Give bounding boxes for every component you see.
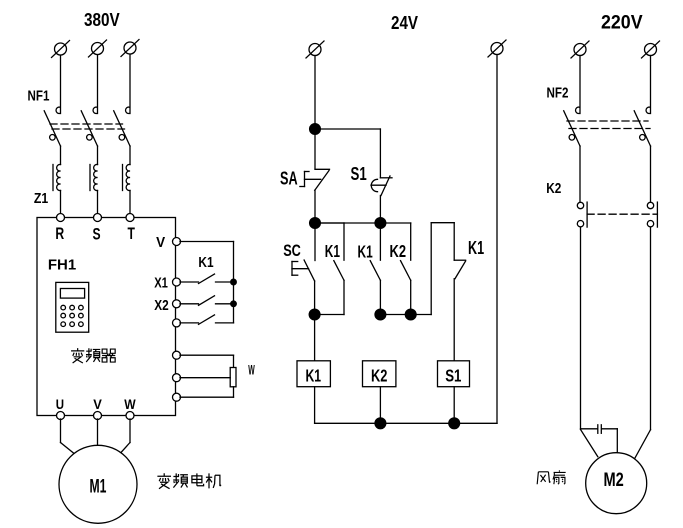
terminal P1 [173, 351, 181, 359]
keypad FH1 [56, 282, 89, 332]
wire P3 to resistor bottom [180, 387, 234, 397]
wire L1 drop [60, 56, 62, 114]
label 变频器 (inverter) [71, 348, 115, 363]
svg-text:K1: K1 [306, 366, 322, 386]
junction X1 bus [231, 279, 237, 285]
supply terminal 24V-L [306, 41, 324, 58]
svg-text:R: R [55, 224, 64, 243]
contact K1 NC [454, 260, 465, 279]
breaker NF2 pole 2 [634, 107, 650, 146]
terminal P2 [173, 374, 181, 382]
svg-text:380V: 380V [84, 10, 120, 30]
breaker NF1 pole 2 [81, 107, 97, 146]
terminal P3 [173, 393, 181, 401]
svg-text:K1: K1 [325, 241, 340, 261]
junction branch2 [375, 309, 386, 320]
contact K2 [380, 223, 410, 315]
wire fan left drop [580, 227, 582, 429]
svg-text:NF1: NF1 [28, 88, 50, 105]
svg-text:S1: S1 [445, 366, 461, 386]
wire pole1 to reactor [60, 146, 62, 165]
wire pole3 to reactor [129, 146, 131, 165]
breaker NF1 linkage [50, 124, 125, 129]
breaker NF2 linkage [567, 121, 650, 129]
button S1 (NC) [371, 176, 392, 196]
terminal V [173, 238, 181, 246]
terminal T [126, 214, 134, 222]
wire reactor3 to T [129, 191, 131, 215]
wire V to motor [97, 419, 99, 446]
label 变频电机 (inverter motor) [157, 473, 221, 488]
svg-text:U: U [56, 396, 64, 412]
wire SA down [314, 190, 316, 223]
supply terminal L2 [89, 40, 107, 57]
wire reactor2 to S [97, 191, 99, 215]
wire P1 to resistor top [180, 355, 234, 367]
terminal V out [94, 412, 102, 420]
svg-text:24V: 24V [391, 13, 418, 33]
button SA (NC) [300, 129, 330, 190]
wire S1 down [379, 196, 381, 224]
wire branch2 bottom [380, 314, 431, 316]
supply terminal 220V-R [642, 41, 660, 58]
svg-text:T: T [128, 224, 136, 243]
junction K1 coil top [309, 309, 320, 320]
wire L2 drop [97, 55, 99, 114]
wire right lead to motor [635, 430, 651, 459]
contact K2 pole 2 [647, 202, 657, 227]
wire U to motor [61, 419, 80, 458]
wire branch to S1 [315, 129, 380, 178]
svg-text:X2: X2 [154, 297, 169, 314]
terminal X1 [173, 278, 181, 286]
svg-text:S: S [93, 225, 101, 244]
wire S1 coil to bottom [453, 387, 455, 424]
svg-text:K1: K1 [198, 254, 213, 271]
contact K1-X1 [180, 274, 234, 284]
svg-text:X1: X1 [154, 275, 168, 292]
svg-text:K2: K2 [546, 181, 561, 197]
svg-text:K1: K1 [468, 238, 484, 258]
svg-text:V: V [156, 234, 165, 251]
terminal X2 [173, 300, 181, 308]
wire P2 to resistor middle [180, 377, 230, 379]
svg-text:Z1: Z1 [34, 190, 48, 207]
supply terminal 220V-L [571, 41, 589, 58]
svg-text:K1: K1 [358, 242, 373, 262]
svg-text:W: W [124, 396, 136, 412]
reactor Z1 phase 1 [53, 164, 61, 190]
wire W to motor [117, 419, 131, 458]
coil K2 [363, 361, 396, 387]
wire reactor1 to R [60, 191, 62, 215]
wire K1 coil to bottom [315, 387, 497, 424]
supply terminal L1 [52, 41, 70, 58]
button SC (NO) [292, 223, 315, 281]
supply terminal L3 [121, 40, 139, 57]
junction S1 bottom [375, 218, 386, 229]
capacitor branch [581, 425, 618, 454]
resistor W [230, 368, 236, 387]
terminal U [57, 412, 65, 420]
motor M2 [586, 453, 647, 514]
terminal R [57, 214, 65, 222]
wire 220V left drop [579, 56, 581, 114]
wire SC down to coil K1 [314, 281, 316, 361]
junction SA bottom [310, 218, 321, 229]
terminal W out [126, 412, 134, 420]
wire L3 drop [129, 55, 131, 114]
contact K1-X2 [180, 296, 234, 306]
coil S1 [438, 361, 470, 387]
junction X2 bus [231, 301, 237, 307]
wire 24V left drop [314, 56, 316, 130]
svg-text:SC: SC [283, 241, 301, 260]
wire V to bus [180, 242, 234, 323]
wire junction link [315, 222, 380, 224]
breaker NF1 pole 3 [114, 107, 130, 146]
breaker NF1 pole 1 [44, 107, 60, 146]
junction K2 bottom rail [375, 418, 386, 429]
contact K2 linkage [587, 213, 657, 215]
motor M1 [59, 445, 137, 523]
wire pole2 to reactor [97, 146, 99, 165]
reactor Z1 phase 2 [90, 164, 98, 190]
supply terminal 24V-R [488, 40, 506, 57]
coil K1 [297, 361, 330, 387]
svg-text:SA: SA [280, 168, 298, 188]
contact K2 pole 1 [577, 202, 587, 227]
inverter box [37, 218, 176, 416]
wire 220V right drop [650, 56, 652, 114]
label 风扇 (fan) [537, 470, 565, 484]
svg-text:M1: M1 [90, 476, 107, 497]
wire left lead to motor [581, 430, 598, 457]
svg-text:K2: K2 [371, 366, 388, 386]
wire riser to NC K1 [431, 223, 454, 315]
junction top [310, 124, 321, 135]
svg-text:K2: K2 [390, 241, 407, 261]
svg-text:W: W [248, 362, 255, 378]
svg-text:220V: 220V [601, 12, 643, 33]
svg-text:V: V [93, 396, 102, 412]
svg-text:FH1: FH1 [48, 257, 76, 274]
svg-text:M2: M2 [604, 470, 624, 491]
junction K2 bottom [405, 309, 416, 320]
svg-text:S1: S1 [351, 164, 367, 184]
wire NC K1 to coil S1 [453, 279, 455, 361]
terminal X3 [173, 319, 181, 327]
contact K1 holding [315, 223, 344, 315]
wire NF2 p2 down [650, 146, 652, 202]
wire NF2 p1 down [579, 146, 581, 202]
wire fan right drop [650, 227, 652, 430]
wire K2 coil to bottom [379, 387, 381, 424]
svg-text:NF2: NF2 [547, 85, 569, 102]
reactor Z1 phase 3 [123, 164, 131, 190]
junction S1 bottom rail [449, 418, 460, 429]
breaker NF2 pole 1 [564, 107, 580, 146]
contact K1 branch2 [370, 223, 380, 315]
terminal S [94, 214, 102, 222]
wire 24V right drop [496, 55, 498, 424]
contact K1-X3 [180, 315, 234, 325]
